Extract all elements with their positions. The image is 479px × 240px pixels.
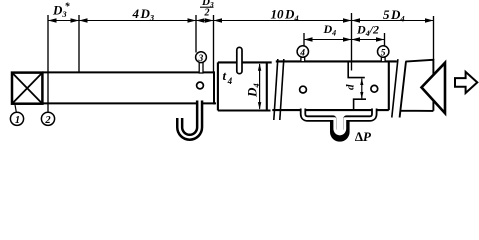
leader to point 1 [15, 105, 16, 112]
extension line at x=213.5 (pipe end plane) [213, 15, 215, 72]
svg-text:1: 1 [15, 115, 20, 126]
outlet cone triangle [422, 63, 446, 113]
outlet pipe piece [400, 60, 434, 118]
orifice step top [348, 61, 365, 78]
svg-text:4: 4 [299, 48, 305, 58]
gauge circle 1 [10, 112, 23, 125]
gauge circle 5 [378, 46, 389, 57]
tap hole left of orifice [300, 86, 307, 93]
tick above gauge 4 [303, 33, 305, 46]
svg-text:d: d [345, 84, 357, 90]
svg-text:5: 5 [381, 48, 386, 58]
extension line at x=48 (tap 2 plane) [47, 15, 49, 112]
extension line at x=351.5 (orifice plane) [351, 13, 353, 71]
thermometer t4 well [237, 47, 242, 73]
svg-text:3: 3 [198, 54, 204, 64]
extension line at x=433.5 (outlet plane) [433, 16, 435, 60]
stub of gauge 4 [301, 57, 305, 61]
svg-text:2: 2 [204, 8, 210, 19]
svg-text:2: 2 [44, 115, 51, 126]
narrow pipe D3 bottom wall [42, 102, 216, 104]
svg-text:∆P: ∆P [355, 129, 372, 144]
second row dimension line D4 / D4-2 [304, 39, 385, 41]
wide section t4 chamber [218, 62, 272, 110]
J-hook static tube under narrow pipe [180, 101, 200, 138]
gauge circle 2 [41, 112, 54, 125]
arrowheads second row [304, 37, 313, 41]
narrow pipe D3 top wall [42, 71, 214, 73]
flow block arrow [455, 72, 477, 93]
stub of gauge 3 [199, 62, 203, 73]
stub of gauge 5 [381, 57, 385, 61]
fan box with cross [12, 73, 42, 104]
narrow pipe end wall [213, 71, 215, 104]
tap hole on narrow pipe [197, 82, 204, 89]
pipe break lines (left pair) [274, 59, 278, 120]
gauge circle 3 [196, 52, 207, 63]
gauge circle 4 [297, 46, 308, 57]
arrowheads main chain [48, 18, 57, 22]
differential manometer U-tube [303, 109, 374, 139]
extension line at x=79 [78, 15, 80, 73]
tap hole right of orifice [371, 85, 378, 92]
wide section with orifice (walls) [272, 61, 397, 110]
main dimension chain line [48, 20, 434, 22]
pipe break lines (right pair) [392, 59, 398, 117]
orifice step bottom [354, 99, 366, 110]
D4 diameter arrow [259, 64, 261, 109]
extension line at x=196 (to gauge 3) [195, 15, 197, 53]
tick above gauge 5 [384, 33, 386, 46]
d arrow [361, 79, 363, 99]
